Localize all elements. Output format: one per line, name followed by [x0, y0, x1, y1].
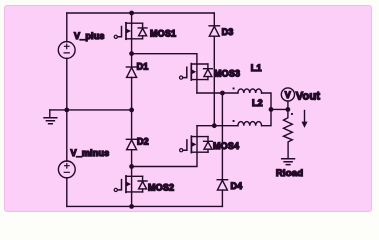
- wire D2 top: [131, 110, 133, 139]
- node rail-ground junction: [64, 108, 69, 113]
- wire bottom rail: [67, 205, 223, 207]
- wire ground row: [50, 109, 132, 111]
- wire left rail lower: [66, 178, 68, 207]
- inductor L2 polarity dot: [233, 120, 235, 122]
- inductor L1 polarity dot: [233, 88, 235, 90]
- svg-text:L2: L2: [252, 98, 263, 108]
- wire upper output row: [197, 92, 238, 94]
- node LC junction: [269, 107, 274, 112]
- node D4 top junction: [220, 91, 225, 96]
- wire MOS2 source stub: [131, 192, 133, 207]
- node top junction: [129, 11, 134, 16]
- wire MOS1 source stub: [131, 39, 133, 54]
- wire D3 bottom: [213, 36, 215, 126]
- node D3 bottom junction: [212, 123, 217, 128]
- node bottom junction: [129, 204, 134, 209]
- resistor Rload polarity dot: [291, 113, 293, 115]
- wire D1 top: [131, 54, 133, 67]
- svg-text:D1: D1: [137, 61, 149, 71]
- node mid junction: [129, 108, 134, 113]
- diode D3: [209, 26, 233, 37]
- svg-text:V_minus: V_minus: [71, 148, 110, 158]
- wire D2 bottom: [131, 150, 133, 167]
- wire top rail: [67, 12, 215, 14]
- wire MOS3 source stub: [196, 80, 198, 93]
- wire D4 top: [221, 93, 223, 180]
- node B junction: [129, 164, 134, 169]
- voltage source V_minus: [58, 148, 109, 178]
- svg-text:V_plus: V_plus: [74, 31, 105, 41]
- wire voltmeter lead: [287, 101, 289, 109]
- svg-text:D2: D2: [137, 137, 149, 147]
- svg-text:L1: L1: [251, 63, 262, 73]
- svg-text:MOS3: MOS3: [214, 69, 240, 79]
- ground below Rload: [282, 159, 295, 165]
- ground: [44, 110, 57, 124]
- wire lower output row: [197, 125, 238, 127]
- svg-text:Vout: Vout: [296, 91, 320, 103]
- inductor L1: [238, 63, 262, 93]
- current direction arrow: [302, 111, 307, 128]
- resistor Rload: [276, 109, 303, 179]
- svg-text:MOS4: MOS4: [213, 141, 239, 151]
- wire MOS1 drain stub: [131, 13, 133, 23]
- diode D1: [126, 61, 148, 77]
- node A junction: [129, 51, 134, 56]
- svg-text:MOS1: MOS1: [150, 29, 176, 39]
- svg-text:MOS2: MOS2: [148, 182, 174, 192]
- wire MOS2 drain stub: [131, 167, 133, 177]
- wire D3 top: [213, 13, 215, 26]
- voltage source V_plus: [58, 31, 104, 59]
- diode D2: [126, 137, 148, 150]
- wire L1 to output node: [262, 93, 271, 109]
- wire output row: [271, 108, 288, 110]
- svg-text:D3: D3: [222, 27, 234, 37]
- wire left rail upper: [66, 13, 68, 42]
- inductor L2: [238, 98, 263, 126]
- svg-text:V: V: [285, 90, 291, 100]
- wire L2 to output node: [262, 109, 271, 125]
- svg-text:D4: D4: [231, 181, 243, 191]
- transistor MOS3: [180, 64, 241, 80]
- wire D1 bottom: [131, 77, 133, 110]
- wire node A to MOS3: [132, 54, 197, 64]
- wire MOS4 drain stub: [196, 126, 198, 137]
- voltmeter Vout: [281, 88, 320, 103]
- transistor MOS4: [180, 136, 240, 152]
- node load junction: [286, 107, 291, 112]
- transistor MOS1: [114, 23, 176, 39]
- wire node B to MOS4 source: [132, 152, 197, 166]
- wire left rail mid: [66, 58, 68, 161]
- diode D4: [217, 180, 242, 191]
- wire D4 bottom: [221, 190, 223, 206]
- transistor MOS2: [114, 176, 174, 192]
- svg-text:Rload: Rload: [276, 168, 303, 179]
